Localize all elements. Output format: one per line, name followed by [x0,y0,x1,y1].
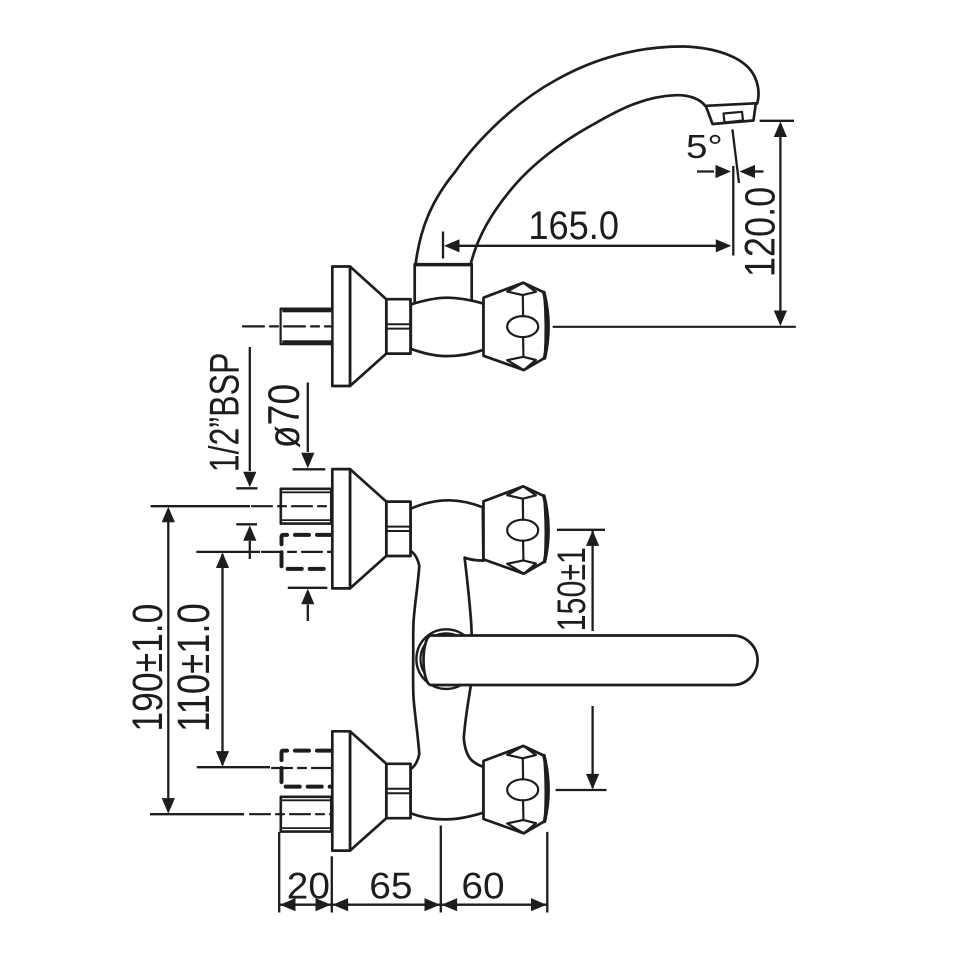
dashed inlet pipe (front bottom, alternate position) [282,751,332,787]
handle knob (front top) [484,486,549,573]
hex nut (side view) [386,299,410,353]
svg-text:150±1: 150±1 [549,547,594,631]
solid inlet pipe (front bottom) [281,797,332,832]
centerline top dashed pipe [262,551,331,553]
valve body barrel (side view) [411,298,484,356]
wall flange plate (side view) [332,267,350,387]
wall flange cone (front top) [350,469,386,588]
wall flange plate (front bottom) [332,731,350,850]
svg-text:120.0: 120.0 [737,187,785,277]
dimension 165.0 line [443,232,731,259]
dashed inlet pipe (front top, alternate position) [282,535,332,569]
dimension 150 line [556,530,607,790]
spout escutcheon ring outer circle [416,629,476,689]
svg-text:190±1.0: 190±1.0 [124,604,172,732]
spout escutcheon ring inner circle [421,633,472,684]
wall flange plate (front top) [332,469,350,588]
wall flange cone (side view) [350,267,386,387]
spout nozzle block [706,103,756,124]
svg-text:110±1.0: 110±1.0 [168,603,219,732]
svg-text:165.0: 165.0 [528,203,619,248]
svg-text:60: 60 [461,866,504,907]
svg-text:1/2”BSP: 1/2”BSP [201,353,248,473]
dimension 5 degree lines [697,129,764,255]
spout tube (curved swivel spout, side view) [416,46,759,265]
centerline extension right of handle [554,326,796,328]
centerline bottom solid pipe [250,813,331,815]
hex nut (front top) [386,502,410,556]
spout bar (front view, horizontal) [424,636,758,686]
centerline top solid pipe [252,505,331,507]
spout base rectangle [415,264,472,302]
dimension 120.0 line [760,121,794,326]
centerline of side view (dash-dot) [243,325,331,327]
handle knob (side view) [484,283,549,370]
hex nut (front bottom) [386,764,410,818]
svg-text:65: 65 [369,866,412,907]
svg-text:ø70: ø70 [259,384,309,448]
svg-text:20: 20 [287,866,330,907]
handle knob (front bottom) [484,746,549,833]
bottom dimension 20 / 65 / 60 [279,826,547,913]
svg-text:5°: 5° [686,127,723,165]
wall flange cone (front bottom) [350,731,386,850]
dimension dia 70 [288,383,328,622]
solid inlet pipe (front top) [281,489,332,524]
dimension 110 line [196,552,270,767]
dimension 1/2 BSP [236,347,257,559]
faucet body (front view): top valve, column, bottom valve [411,500,484,819]
threaded inlet pipe (side view) [281,308,333,346]
centerline bottom dashed pipe [272,767,331,769]
nozzle aerator detail [724,112,744,123]
dimension 190 line [150,506,250,814]
